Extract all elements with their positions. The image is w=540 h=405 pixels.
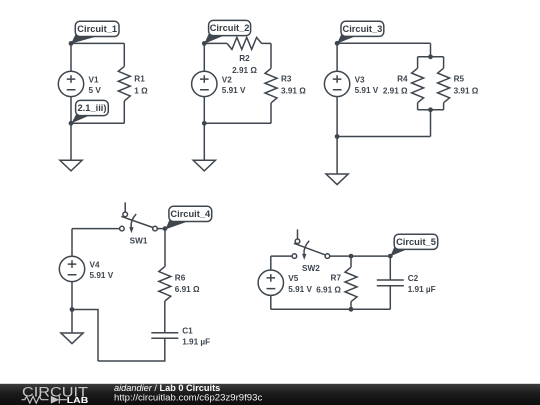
node bottom C1 <box>69 121 74 126</box>
wire left-top C3 <box>336 43 338 71</box>
wire left-top C1 <box>70 43 72 71</box>
resistor R2 <box>227 37 262 75</box>
wire bottom C3 <box>337 136 430 138</box>
wire top-left C2 <box>204 42 227 44</box>
node top C3 <box>335 41 340 46</box>
wire left-return C4 <box>72 310 98 362</box>
node top C2 <box>202 41 207 46</box>
node top C1 <box>69 41 74 46</box>
wire left-bottom C3 <box>336 97 338 137</box>
wire top C1 <box>71 42 124 44</box>
svg-text:R1: R1 <box>134 75 145 84</box>
svg-text:3.91 Ω: 3.91 Ω <box>454 86 479 95</box>
wire top C3 <box>337 42 430 44</box>
wire right-bottom C2 <box>270 103 272 123</box>
wire R4 lead-bottom <box>417 103 419 110</box>
wire left-bottom C2 <box>203 97 205 124</box>
svg-text:1 Ω: 1 Ω <box>134 86 148 95</box>
svg-text:http://circuitlab.com/c6p23z9r: http://circuitlab.com/c6p23z9r9f93c <box>114 392 262 403</box>
wire R4 lead-top <box>417 57 419 68</box>
svg-text:5.91 V: 5.91 V <box>355 86 379 95</box>
logo zigzag-diode line <box>22 396 67 404</box>
wire top-right C4 <box>157 228 165 230</box>
resistor R5 <box>438 68 479 103</box>
svg-text:V4: V4 <box>90 260 100 269</box>
wire left-bottom C4 <box>71 282 73 310</box>
resistor R3 <box>265 68 306 103</box>
node parallel-bottom C3 <box>428 107 433 112</box>
wire R6-to-C1 <box>164 301 166 333</box>
svg-text:R5: R5 <box>454 75 465 84</box>
switch SW1 <box>120 202 158 245</box>
svg-text:R7: R7 <box>331 274 342 283</box>
node bottom C3 <box>335 134 340 139</box>
node switch-out C4 <box>163 226 168 231</box>
voltage source V2 <box>192 71 246 96</box>
wire left-bottom C5 <box>270 295 272 309</box>
svg-text:2.91 Ω: 2.91 Ω <box>232 66 257 75</box>
wire R7 lead-bottom <box>350 302 352 310</box>
wire left-top C2 <box>203 43 205 71</box>
label Circuit_1 <box>71 21 119 43</box>
wire R6 lead-top <box>164 229 166 267</box>
svg-text:R2: R2 <box>239 54 250 63</box>
svg-text:Circuit_3: Circuit_3 <box>343 24 383 34</box>
svg-text:V3: V3 <box>355 75 365 84</box>
svg-text:SW1: SW1 <box>130 236 148 245</box>
capacitor C1 <box>151 327 210 347</box>
wire ground C2 <box>203 123 205 160</box>
wire bottom C1 <box>71 122 124 124</box>
node bottom C4 <box>70 307 75 312</box>
label Circuit_2 <box>204 20 250 43</box>
svg-text:V5: V5 <box>288 274 298 283</box>
resistor R1 <box>118 66 148 101</box>
label Circuit_5 <box>390 234 437 256</box>
wire left-bottom C1 <box>70 97 72 124</box>
voltage source V1 <box>58 71 101 96</box>
capacitor C2 <box>377 274 436 294</box>
ground C1 <box>60 160 82 171</box>
wire ground C3 <box>336 137 338 175</box>
ground C4 <box>61 333 83 344</box>
node C2-top C5 <box>388 254 393 259</box>
wire top-right C2 <box>262 42 272 44</box>
label Circuit_3 <box>337 21 384 43</box>
svg-text:R6: R6 <box>175 273 186 282</box>
wire ground C1 <box>70 123 72 160</box>
switch SW2 <box>292 229 330 273</box>
node bottom C5 <box>349 307 354 312</box>
svg-text:Circuit_1: Circuit_1 <box>77 24 117 34</box>
wire R5 lead-top <box>443 57 445 68</box>
wire R5 lead-bottom <box>443 103 445 110</box>
wire right-top C2 <box>270 43 272 68</box>
node bottom C2 <box>202 121 207 126</box>
wire bottom C2 <box>204 122 271 124</box>
node R7-top C5 <box>349 254 354 259</box>
wire right-bottom C1 <box>123 101 125 123</box>
svg-text:C2: C2 <box>408 274 419 283</box>
svg-text:C1: C1 <box>182 327 193 336</box>
node parallel-top C3 <box>428 54 433 59</box>
svg-text:Circuit_5: Circuit_5 <box>396 237 436 247</box>
wire top-right C5 <box>330 255 391 257</box>
svg-text:R3: R3 <box>281 75 292 84</box>
resistor R6 <box>159 267 200 302</box>
wire right-down C3 <box>430 43 432 57</box>
svg-text:5.91 V: 5.91 V <box>222 86 246 95</box>
svg-text:3.91 Ω: 3.91 Ω <box>281 86 306 95</box>
wire C2 lead-bottom <box>389 286 391 310</box>
svg-text:R4: R4 <box>397 75 408 84</box>
wire bottom C5 <box>271 308 391 310</box>
wire right-top C1 <box>123 43 125 66</box>
voltage source V4 <box>59 256 113 281</box>
svg-text:5 V: 5 V <box>89 86 102 95</box>
voltage source V5 <box>258 270 312 295</box>
svg-text:SW2: SW2 <box>302 264 320 273</box>
label 2.1_iii) <box>71 100 108 123</box>
ground C3 <box>326 174 348 185</box>
wire parallel-bottom C3 <box>418 109 444 111</box>
svg-text:5.91 V: 5.91 V <box>90 271 114 280</box>
wire C1-bottom <box>98 338 165 361</box>
wire R7 lead-top <box>350 256 352 267</box>
svg-text:2.91 Ω: 2.91 Ω <box>383 86 408 95</box>
svg-text:1.91 µF: 1.91 µF <box>182 338 210 347</box>
wire down from parallel C3 <box>430 110 432 137</box>
svg-text:LAB: LAB <box>67 395 89 405</box>
wire ground C4 <box>71 310 73 334</box>
svg-text:Circuit_2: Circuit_2 <box>210 23 250 33</box>
svg-text:V2: V2 <box>222 75 232 84</box>
wire top-left C5 <box>271 255 292 257</box>
resistor R4 <box>383 68 424 103</box>
wire parallel-top C3 <box>418 56 444 58</box>
svg-text:aidandier / Lab 0 Circuits: aidandier / Lab 0 Circuits <box>114 383 220 393</box>
svg-text:V1: V1 <box>89 75 99 84</box>
wire left-top C5 <box>270 256 272 270</box>
logo diode fill <box>51 396 59 404</box>
wire left-top C4 <box>71 229 73 257</box>
wire top-left C4 <box>72 228 120 230</box>
svg-text:1.91 µF: 1.91 µF <box>408 285 436 294</box>
label Circuit_4 <box>165 206 211 229</box>
svg-text:6.91 Ω: 6.91 Ω <box>316 285 341 294</box>
svg-text:6.91 Ω: 6.91 Ω <box>175 285 200 294</box>
svg-text:2.1_iii): 2.1_iii) <box>78 103 107 113</box>
wire C2 lead-top <box>389 256 391 280</box>
resistor R7 <box>316 267 357 302</box>
svg-text:Circuit_4: Circuit_4 <box>170 209 211 219</box>
svg-text:5.91 V: 5.91 V <box>288 285 312 294</box>
ground C2 <box>193 160 215 171</box>
voltage source V3 <box>324 71 378 96</box>
